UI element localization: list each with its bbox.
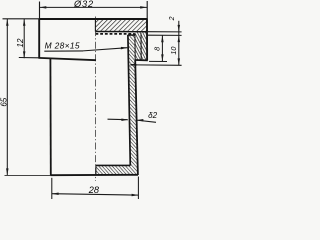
dim 10: up arrowhead xyxy=(178,35,181,42)
dim 12: top arrowhead xyxy=(23,19,26,26)
part outline: cup wall inner (left) edge xyxy=(128,35,130,166)
wire: thread boundary line 1 xyxy=(134,33,136,60)
hatched section: thread zone inner column (cup wall top) xyxy=(128,35,135,59)
dim 8: top arrowhead xyxy=(161,35,164,42)
leader M28x15: arrowhead xyxy=(121,47,128,50)
dim 65: top arrowhead xyxy=(6,19,9,26)
wire: cap top bar left boundary xyxy=(94,19,96,32)
dim 8: dimension line xyxy=(161,35,163,61)
part outline: cap skirt outer edge xyxy=(146,19,148,61)
dim 12: dimension line xyxy=(23,19,25,58)
part outline: cap inner top surface xyxy=(95,31,147,33)
thread dashed line xyxy=(96,33,135,35)
svg-text:12: 12 xyxy=(16,38,25,47)
svg-text:8: 8 xyxy=(153,47,162,51)
part outline: cap skirt bottom edge xyxy=(135,59,148,61)
dim 65: dimension line xyxy=(6,19,8,175)
dim Ø32: dimension line xyxy=(40,6,148,8)
dim 12: bottom arrowhead xyxy=(23,51,26,58)
part outline: cup left edge (view half) xyxy=(49,58,51,175)
extension line right: thread runout / dim 10 bottom xyxy=(137,64,182,66)
dim 10: down arrowhead xyxy=(178,58,181,65)
svg-text:δ2: δ2 xyxy=(148,111,157,120)
dim delta2: left arrow xyxy=(108,118,129,121)
dim 28: right extension line xyxy=(137,177,139,200)
svg-text:2: 2 xyxy=(169,16,176,21)
part outline: bottom edge xyxy=(51,174,139,176)
hatched section: cap top bar xyxy=(96,20,147,32)
wire: bottom extension line for 65 xyxy=(5,174,51,176)
dim 28: left extension line xyxy=(51,178,53,199)
hatched section: cup wall and bottom (L shape) xyxy=(96,60,138,175)
dim delta2: right arrow xyxy=(137,120,157,122)
dim Ø32: left extension line xyxy=(39,2,41,19)
dim 2 and 10: shared dimension line xyxy=(178,21,180,66)
centerline (dash-dot axis) xyxy=(95,17,97,182)
dim 28: right arrowhead xyxy=(132,194,139,197)
dim 28: left arrowhead xyxy=(52,193,59,196)
dim Ø32: right extension line xyxy=(146,1,148,19)
wire: cup bottom bar left boundary xyxy=(95,165,97,175)
extension line right: cup rim xyxy=(148,34,182,36)
part outline: cup rim top edge xyxy=(128,34,135,36)
part outline: cap left edge xyxy=(38,19,40,59)
dim 8: bottom arrowhead xyxy=(161,54,164,61)
svg-text:10: 10 xyxy=(169,47,178,55)
leader M28x15: underline xyxy=(44,50,83,52)
dim Ø32: right arrowhead xyxy=(140,6,147,9)
extension line right: cap inner top xyxy=(148,31,182,33)
dim 28: dimension line xyxy=(52,194,139,195)
svg-text:65: 65 xyxy=(0,97,9,106)
part outline: cup inner bottom edge xyxy=(96,164,130,166)
dim 8: bottom extension line xyxy=(149,60,167,62)
svg-text:28: 28 xyxy=(88,185,100,195)
part outline: thread runout line on cup wall xyxy=(130,64,136,66)
dim 12: bottom extension line xyxy=(19,57,39,59)
svg-text:Ø32: Ø32 xyxy=(73,0,94,9)
wire: thread boundary line 2 xyxy=(140,33,142,60)
svg-text:М 28×15: М 28×15 xyxy=(45,40,80,50)
part outline: cap bottom edge (view half) xyxy=(39,58,97,60)
leader M28x15: leader line xyxy=(83,48,127,51)
wire: top edge extension (left thin part) xyxy=(3,18,39,20)
hatched section: thread zone outer column (cap skirt) xyxy=(135,32,146,60)
part outline: cup wall outer (right) edge xyxy=(135,60,138,175)
dim 2: down arrowhead xyxy=(178,25,181,32)
part outline: cap top edge xyxy=(39,18,147,20)
dim Ø32: left arrowhead xyxy=(40,6,47,9)
dim 65: bottom arrowhead xyxy=(6,168,9,175)
